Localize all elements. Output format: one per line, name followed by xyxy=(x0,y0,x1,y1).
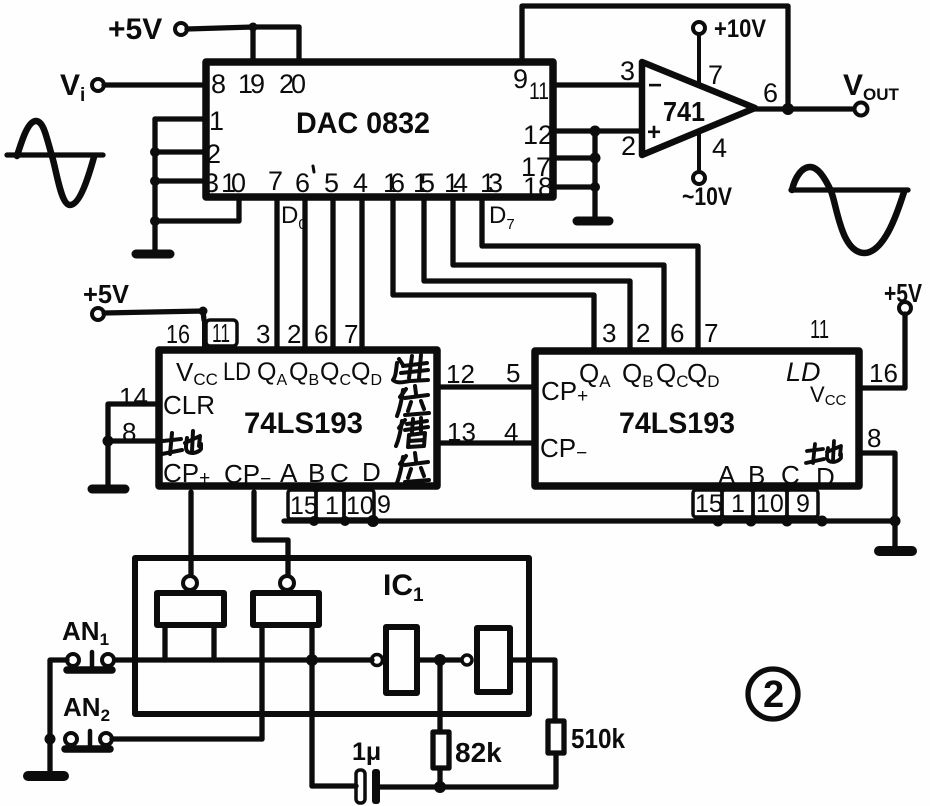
svg-text:15: 15 xyxy=(290,492,318,520)
svg-text:+5V: +5V xyxy=(108,13,162,46)
svg-text:C: C xyxy=(330,458,349,488)
svg-text:11: 11 xyxy=(212,318,230,348)
svg-text:AN2: AN2 xyxy=(63,692,110,725)
wire ground bus vertical xyxy=(592,131,597,217)
svg-text:16: 16 xyxy=(166,319,190,349)
svg-text:5: 5 xyxy=(506,358,520,388)
svg-text:11: 11 xyxy=(810,314,829,344)
wire preset input bus xyxy=(284,518,895,523)
node junction pin18 xyxy=(590,182,600,192)
svg-text:DAC 0832: DAC 0832 xyxy=(296,107,430,140)
svg-text:3: 3 xyxy=(620,56,635,86)
pin 10 box label (counter2 C) xyxy=(753,490,787,518)
svg-text:2: 2 xyxy=(287,319,301,349)
svg-text:QC: QC xyxy=(320,358,351,389)
node junction counter2 B xyxy=(746,516,757,527)
node junction 82k bottom xyxy=(434,781,446,793)
wire AN1 bus xyxy=(114,657,372,662)
wire DAC pin3 to left bus xyxy=(155,178,203,183)
svg-text:20: 20 xyxy=(279,69,306,99)
monostable M2 body xyxy=(253,576,319,625)
pin 15 box label (counter2 A) xyxy=(693,490,723,518)
svg-text:IC1: IC1 xyxy=(383,569,424,606)
svg-text:+5V: +5V xyxy=(83,279,130,309)
svg-text:VCC: VCC xyxy=(176,357,218,389)
svg-text:Vi: Vi xyxy=(60,69,85,106)
svg-text:12: 12 xyxy=(523,120,553,150)
wire +5V to counter2 pin16 xyxy=(861,314,905,388)
wire DAC pin18 to ground bus xyxy=(556,184,595,189)
DAC0832 U1 body xyxy=(206,62,553,197)
svg-text:+: + xyxy=(647,119,661,146)
wire M2 left pin to AN2 xyxy=(259,627,264,739)
svg-text:2: 2 xyxy=(763,674,784,716)
node junction AN2 xyxy=(45,734,56,745)
node junction pin2 xyxy=(150,147,160,157)
pin 1 box label (counter2 B) xyxy=(722,490,753,518)
wire AN2 to M2 xyxy=(112,736,262,741)
svg-text:AN1: AN1 xyxy=(62,616,109,649)
counter U4 74LS193 body xyxy=(535,351,859,486)
monostable M1 body xyxy=(157,576,224,625)
wire DAC pin2 to left bus xyxy=(155,149,203,154)
svg-text:8: 8 xyxy=(867,423,881,453)
svg-text:16: 16 xyxy=(869,358,898,388)
node +5V (counter 2) terminal xyxy=(884,278,923,314)
svg-text:14: 14 xyxy=(444,168,468,198)
svg-text:1μ: 1μ xyxy=(352,738,381,766)
node -10V supply terminal xyxy=(682,133,732,211)
node +5V (DAC supply) terminal xyxy=(108,13,187,46)
node junction pin17 xyxy=(590,153,601,164)
svg-text:9: 9 xyxy=(377,491,391,519)
resistor R2 (inside IC1) xyxy=(477,628,510,692)
counter U3 74LS193 body xyxy=(159,350,437,486)
ground (op-amp input bias) xyxy=(577,217,609,226)
svg-text:3: 3 xyxy=(256,319,270,349)
wire timing bus to capacitor xyxy=(312,783,356,788)
svg-text:16: 16 xyxy=(383,168,405,198)
node junction pin10 xyxy=(150,216,160,226)
svg-text:LD: LD xyxy=(223,358,251,386)
wire pin8 to ground bus xyxy=(108,438,155,443)
svg-text:B: B xyxy=(308,458,325,488)
U3 borrow hanzi wei (bottom) xyxy=(397,453,429,483)
svg-text:19: 19 xyxy=(238,69,265,99)
wire left AGND bus xyxy=(152,119,157,252)
node junction 82k top xyxy=(434,654,446,666)
wire DAC pin11 to op-amp inverting input xyxy=(556,82,642,87)
svg-text:D: D xyxy=(362,457,381,487)
ground (counter1) xyxy=(92,485,125,494)
svg-text:10: 10 xyxy=(346,492,374,520)
U3 GND pin name (hanzi di) xyxy=(162,431,201,454)
resistor R1 (inside IC1) xyxy=(372,627,418,693)
node junction counter1 C xyxy=(367,515,379,527)
wire D7 data line xyxy=(482,200,698,349)
svg-text:741: 741 xyxy=(663,96,705,127)
svg-text:6: 6 xyxy=(314,319,328,349)
svg-text:QB: QB xyxy=(289,358,319,389)
wire AN1 to ground bus xyxy=(50,660,67,771)
svg-text:82k: 82k xyxy=(455,737,502,768)
svg-text:3: 3 xyxy=(204,168,219,198)
svg-text:6: 6 xyxy=(670,318,684,348)
svg-text:CP−: CP− xyxy=(224,459,271,490)
svg-text:10: 10 xyxy=(221,168,246,198)
svg-text:11: 11 xyxy=(529,78,549,105)
node junction pin3 xyxy=(150,176,160,186)
node junction pin12 xyxy=(590,126,601,137)
resistor R3 82k xyxy=(433,660,502,787)
svg-text:7: 7 xyxy=(704,318,718,348)
resistor R4 510k xyxy=(548,721,625,754)
wire capacitor to 510k bottom xyxy=(380,753,556,787)
node junction timing xyxy=(306,654,318,666)
svg-text:7: 7 xyxy=(344,319,358,349)
wire D2 data line xyxy=(330,200,335,349)
node +10V supply terminal xyxy=(693,15,766,85)
svg-text:6: 6 xyxy=(295,168,310,198)
wire op-amp output to Vout xyxy=(755,106,855,111)
wire carry 12 to 5 xyxy=(440,384,534,389)
wire M1 output right xyxy=(211,627,216,660)
svg-text:74LS193: 74LS193 xyxy=(619,407,735,440)
svg-text:+10V: +10V xyxy=(714,15,766,43)
node R2 input terminal xyxy=(462,655,472,665)
svg-text:10: 10 xyxy=(756,490,784,518)
wire Vi to DAC pin 8 xyxy=(104,82,203,87)
svg-text:2: 2 xyxy=(621,131,636,161)
svg-text:C: C xyxy=(781,460,800,490)
svg-text:CLR: CLR xyxy=(163,390,215,420)
svg-text:VOUT: VOUT xyxy=(843,69,900,104)
svg-text:15: 15 xyxy=(695,490,723,518)
figure number 2 xyxy=(748,669,798,719)
svg-text:D: D xyxy=(816,462,835,492)
svg-text:7: 7 xyxy=(268,166,283,196)
svg-text:CP−: CP− xyxy=(540,433,587,464)
svg-text:QB: QB xyxy=(622,358,654,391)
wire D6 data line xyxy=(453,200,664,349)
wire DAC pin17 to ground bus xyxy=(556,155,595,160)
wire counter2 pin8 to ground xyxy=(861,453,895,548)
wire borrow 13 to 4 xyxy=(440,440,534,445)
svg-text:18: 18 xyxy=(523,172,553,202)
svg-text:7: 7 xyxy=(708,60,723,90)
pin 11 box label (counter1 LD) xyxy=(206,318,237,348)
U3 carry hanzi wei (top) xyxy=(397,386,429,416)
node AN1 pushbutton xyxy=(62,616,114,670)
svg-text:+5V: +5V xyxy=(884,278,923,308)
pin 10 box label (counter1 C) xyxy=(344,490,374,520)
svg-text:2: 2 xyxy=(636,318,650,348)
svg-text:8: 8 xyxy=(211,69,226,99)
svg-text:CP+: CP+ xyxy=(163,458,210,489)
capacitor C1 1u xyxy=(352,738,381,804)
ground (AN switches) xyxy=(28,771,64,781)
node +5V (counter 1) terminal xyxy=(83,279,130,320)
svg-text:A: A xyxy=(280,458,298,488)
svg-text:1: 1 xyxy=(731,490,745,518)
wire R1 to R2 xyxy=(417,657,462,662)
node Vout terminal xyxy=(843,69,900,116)
wire CLR to ground xyxy=(108,404,155,486)
U3 carry hanzi jin xyxy=(393,355,428,382)
wire D3 data line xyxy=(359,200,364,349)
wire D1 data line xyxy=(302,200,307,349)
svg-text:14: 14 xyxy=(119,382,148,412)
wire M1 output left xyxy=(162,627,167,660)
node junction pin8 xyxy=(103,436,114,447)
svg-text:−: − xyxy=(648,72,662,99)
svg-text:6: 6 xyxy=(763,78,778,108)
svg-text:3: 3 xyxy=(602,318,616,348)
wire D5 data line xyxy=(424,200,630,349)
wire DAC pin12 to op-amp non-inverting input xyxy=(556,128,642,133)
wire CP+ to IC1 trigger 1 xyxy=(188,492,193,576)
IC1 body xyxy=(135,558,529,714)
wire feedback pin9 to output node xyxy=(522,6,788,104)
wire D0 data line (DAC pin7 to QA1) xyxy=(274,200,279,349)
wire DAC pin10 down and left xyxy=(155,200,239,221)
U4 GND pin name (hanzi di) xyxy=(806,441,841,463)
node Vi input terminal xyxy=(60,69,104,106)
node output junction xyxy=(782,103,794,115)
svg-text:15: 15 xyxy=(413,168,435,198)
node junction counter2 D xyxy=(817,516,828,527)
wire +5V to counter1 pin 11 xyxy=(104,307,208,347)
svg-text:1: 1 xyxy=(209,106,224,136)
svg-text:1: 1 xyxy=(325,492,339,520)
svg-text:74LS193: 74LS193 xyxy=(244,407,363,440)
ground (counter2 / preset bus) xyxy=(879,546,912,556)
svg-text:9: 9 xyxy=(513,64,528,94)
svg-text:D7: D7 xyxy=(489,202,515,233)
wire CP- to IC1 trigger 2 xyxy=(254,492,288,576)
ground (DAC analog) xyxy=(136,250,170,259)
svg-text:QD: QD xyxy=(687,358,720,391)
node junction counter2 A xyxy=(713,516,724,527)
wire DAC pin1 to left bus xyxy=(155,116,203,121)
node junction pin8 bus xyxy=(890,516,901,527)
svg-text:VCC: VCC xyxy=(810,382,847,409)
wire M2 right pin to timing bus xyxy=(309,627,314,786)
wire R2 to 510k xyxy=(510,660,555,721)
svg-text:QD: QD xyxy=(351,358,382,389)
pin 9 box label (counter2 D) xyxy=(787,490,818,518)
pin 15 box label (counter1 A) xyxy=(288,490,318,520)
U3 borrow hanzi jie xyxy=(396,418,428,447)
svg-text:A: A xyxy=(718,460,736,490)
svg-text:~10V: ~10V xyxy=(682,183,732,211)
wire D4 data line (staircase to QA2) xyxy=(393,200,594,349)
svg-text:2: 2 xyxy=(206,139,221,169)
input sine wave symbol xyxy=(7,121,103,205)
svg-text:QA: QA xyxy=(257,358,287,389)
svg-text:QC: QC xyxy=(656,358,689,391)
node junction counter1 A xyxy=(309,516,319,526)
node junction counter2 C xyxy=(782,516,793,527)
svg-text:510k: 510k xyxy=(571,723,625,754)
pin 1 box label (counter1 B) xyxy=(316,490,344,520)
node AN2 pushbutton xyxy=(63,692,112,749)
svg-text:9: 9 xyxy=(796,490,810,518)
svg-text:4: 4 xyxy=(353,168,368,198)
node junction counter1 B xyxy=(340,516,350,526)
output sine wave symbol xyxy=(791,167,908,253)
op-amp U2 741 triangle xyxy=(642,62,755,155)
svg-text:13: 13 xyxy=(480,168,503,198)
svg-text:5: 5 xyxy=(324,168,339,198)
svg-text:B: B xyxy=(748,460,765,490)
wire +5V to DAC pins 19,20 xyxy=(187,23,299,61)
svg-text:4: 4 xyxy=(712,133,727,163)
